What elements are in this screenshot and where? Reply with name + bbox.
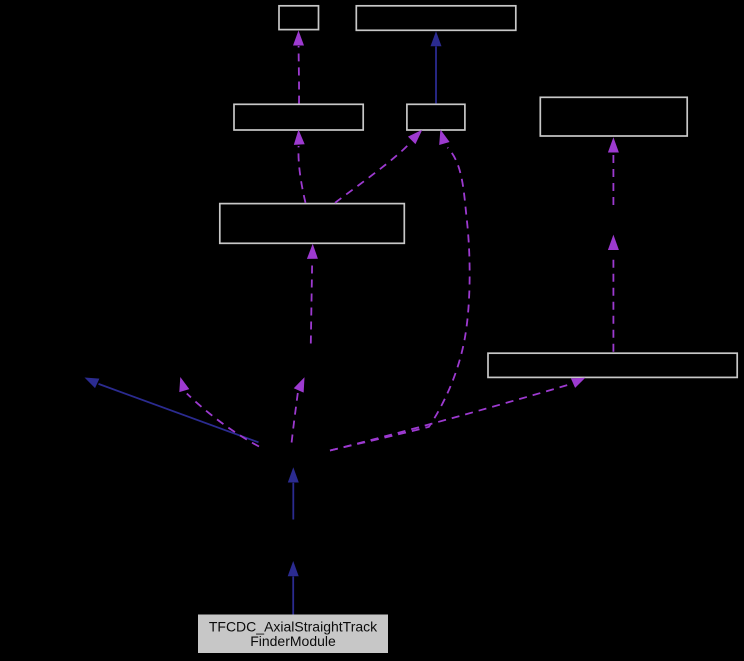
edge central node to left invisible node (dashed curve) [179,377,259,447]
edge G to E lower segment (dashed, to invisible label) [608,235,619,352]
node box E (row2 right, two-line) [540,97,687,136]
edge G to E upper segment (dashed, arrowhead at E) [608,137,619,205]
edge F to D (dashed usage arrow, diagonal) [335,130,422,203]
edge gray node up, lower blue segment [288,561,299,615]
edge C to A (dashed usage arrow) [293,31,304,104]
edge central node to far-left (solid blue inheritance diagonal) [85,378,259,443]
node box C (row2 left) [234,104,363,130]
node box B (top wide) [356,6,516,31]
node box A (top small) [279,6,319,30]
node box F (row3, two-line) [220,204,404,244]
edge to F upper segment (dashed, arrowhead at F) [307,244,318,344]
edge central node to G (dashed usage arrow going right) [330,378,585,451]
svg-text:FinderModule: FinderModule [250,633,336,649]
node box D (row2 middle) [407,104,465,130]
node box G (row4 right) [488,353,737,377]
edge D to B (solid inheritance arrow, blue) [431,31,442,103]
edge to central node, upper blue segment [288,467,299,519]
node TFCDC_AxialStraightTrackFinderModule (gray current node) [199,615,388,653]
edge central node to F lower segment (dashed) [292,377,305,442]
edge central node to D (long dashed curve on right) [330,130,470,451]
edge F to C (dashed usage arrow) [294,130,306,203]
